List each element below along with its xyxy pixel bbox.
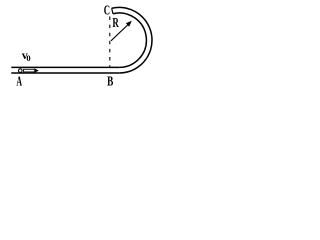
node: ball at A: [19, 69, 23, 73]
wire: inner arc of circular loop: [113, 13, 146, 67]
wire: straight tube track bottom line A to B: [11, 72, 119, 74]
svg-text:0: 0: [26, 53, 30, 63]
svg-text:R: R: [112, 15, 119, 30]
wire: velocity arrow shaft (hollow): [24, 69, 35, 72]
wire: dashed line C to B: [109, 17, 111, 67]
wire: velocity arrow head: [35, 68, 39, 73]
wire: radius arrow head: [126, 21, 132, 27]
wire: outer arc of circular loop: [112, 7, 152, 73]
svg-text:C: C: [104, 2, 110, 18]
svg-text:B: B: [107, 72, 113, 89]
wire: radius arrow shaft: [111, 24, 129, 41]
wire: tube end cap at C: [112, 8, 113, 13]
svg-text:A: A: [16, 74, 22, 89]
wire: straight tube track top line A to B: [11, 66, 119, 68]
